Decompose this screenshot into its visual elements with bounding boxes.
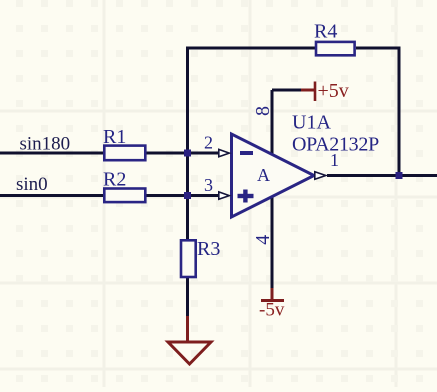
svg-text:8: 8 [252,106,274,116]
svg-text:U1A: U1A [292,112,331,134]
svg-text:R2: R2 [103,169,126,191]
svg-text:3: 3 [204,175,213,195]
svg-text:A: A [257,165,270,185]
svg-text:-5v: -5v [259,300,285,321]
svg-text:4: 4 [252,235,274,245]
svg-text:1: 1 [330,150,339,170]
svg-text:2: 2 [204,133,213,153]
svg-text:R3: R3 [197,238,220,260]
svg-text:R1: R1 [103,126,126,148]
svg-text:+5v: +5v [318,80,349,102]
svg-text:R4: R4 [314,21,337,43]
svg-text:sin0: sin0 [16,174,48,195]
svg-text:sin180: sin180 [20,134,71,155]
